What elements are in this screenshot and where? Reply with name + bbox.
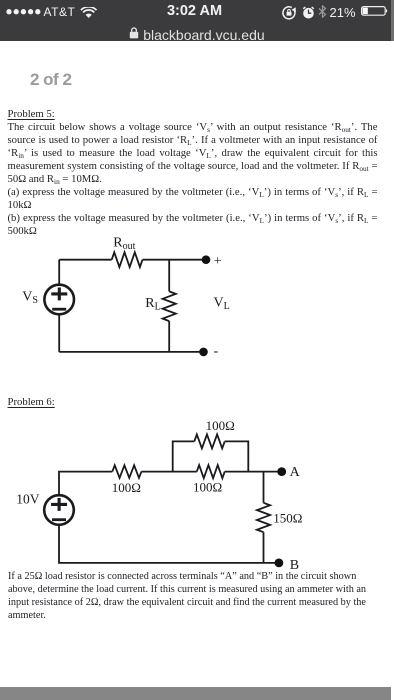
svg-text:100Ω: 100Ω (112, 480, 141, 495)
wire mid (141, 471, 196, 473)
svg-text:10V: 10V (16, 492, 40, 507)
node B (275, 559, 284, 568)
orientation lock icon (282, 6, 296, 20)
resistor RL (163, 291, 176, 321)
wire 150 branch upper (263, 472, 265, 503)
svg-text:150Ω: 150Ω (273, 510, 302, 525)
label B (290, 558, 299, 573)
wire branch lower (168, 321, 170, 352)
label 150ohm (273, 510, 302, 525)
battery icon (361, 6, 388, 16)
resistor 100ohm left (112, 465, 141, 478)
wire source top (58, 260, 60, 285)
svg-text:RL: RL (145, 296, 160, 313)
resistor 100ohm upper (194, 434, 224, 448)
svg-text:100Ω: 100Ω (206, 418, 235, 433)
resistor 150ohm (257, 503, 270, 532)
status bar: signal dots (6, 9, 42, 15)
svg-text:Rout: Rout (113, 235, 135, 252)
scrollbar strip top right (391, 0, 394, 41)
wire bottom (59, 351, 203, 353)
bottom toolbar sliver (0, 687, 391, 700)
url row (0, 27, 394, 41)
resistor 100ohm lower (197, 465, 225, 478)
circuit 6 (0, 415, 394, 580)
label A (290, 465, 301, 480)
wire left rail top (59, 472, 112, 496)
label 100ohm top (206, 418, 235, 433)
bluetooth icon (318, 5, 327, 18)
label VL (214, 296, 230, 313)
voltage source 10V (44, 495, 74, 525)
time (0, 4, 392, 18)
wifi icon (80, 7, 97, 19)
label - (214, 344, 219, 359)
status bar background (0, 0, 394, 41)
node + terminal top (202, 255, 211, 264)
label Rout (113, 235, 135, 252)
label 100ohm lower (193, 480, 222, 495)
wire to node A (225, 471, 282, 473)
wire source bottom (58, 314, 60, 352)
wire 150 branch lower (263, 532, 265, 563)
wire branch upper (168, 260, 170, 292)
svg-text:A: A (290, 465, 301, 480)
svg-text:+: + (214, 254, 222, 269)
node - terminal bottom (199, 348, 208, 357)
wire top left (59, 259, 111, 261)
carrier (44, 6, 76, 18)
label + (214, 254, 222, 269)
battery percent (330, 6, 356, 19)
circuit 5 (0, 230, 394, 395)
label 100ohm left (112, 480, 141, 495)
wire parallel top branch (173, 441, 249, 471)
svg-text:100Ω: 100Ω (193, 480, 222, 495)
svg-text:VL: VL (214, 296, 230, 313)
problem 5 text (8, 108, 378, 238)
wire bottom rail (59, 525, 279, 563)
svg-text:-: - (214, 344, 219, 359)
page count (30, 71, 71, 88)
label Vs (22, 289, 38, 306)
label RL (145, 296, 160, 313)
resistor Rout (112, 252, 143, 267)
node A (277, 467, 286, 476)
voltage source Vs (44, 285, 74, 315)
wire top right (143, 259, 207, 261)
problem 6 heading (8, 396, 378, 409)
bottom paragraph (8, 570, 388, 622)
label 10V (16, 492, 40, 507)
svg-text:VS: VS (22, 289, 38, 306)
alarm clock icon (302, 6, 315, 19)
